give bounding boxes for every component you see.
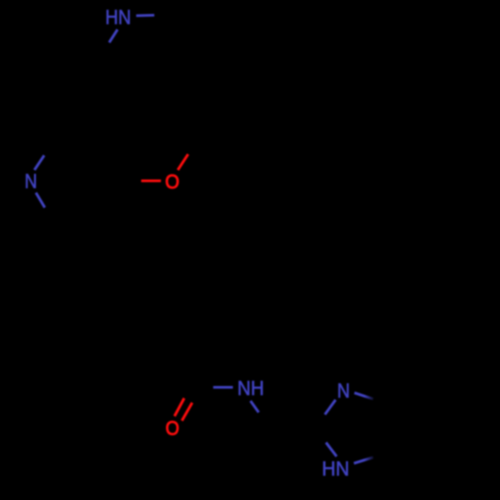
svg-text:O: O bbox=[165, 172, 179, 194]
wire N-C upper left bbox=[34, 155, 44, 170]
svg-text:N: N bbox=[25, 171, 37, 193]
wire C2-N1 imidazole bbox=[326, 443, 337, 457]
wire N-C lower left bbox=[36, 193, 45, 208]
wire C-NH amide bbox=[213, 386, 233, 389]
svg-text:O: O bbox=[166, 418, 180, 440]
wire N3-C2 imidazole bbox=[325, 400, 336, 415]
wire C=O double bond line1 bbox=[175, 398, 185, 416]
svg-text:NH: NH bbox=[237, 378, 264, 400]
svg-text:HN: HN bbox=[105, 7, 131, 29]
wire HN-C top bbox=[109, 30, 117, 43]
svg-text:HN: HN bbox=[322, 459, 349, 481]
wire O-CH3 ether bbox=[178, 154, 188, 170]
wire N-CH3 top bbox=[136, 14, 154, 17]
wire N1-C7a imidazole bbox=[354, 457, 373, 463]
wire C=O double bond line2 bbox=[182, 403, 192, 421]
svg-text:N: N bbox=[337, 381, 350, 403]
wire NH-CH2 bbox=[251, 401, 259, 413]
wire C-O ether bbox=[141, 179, 161, 182]
wire N3-C3a imidazole bbox=[354, 393, 373, 399]
